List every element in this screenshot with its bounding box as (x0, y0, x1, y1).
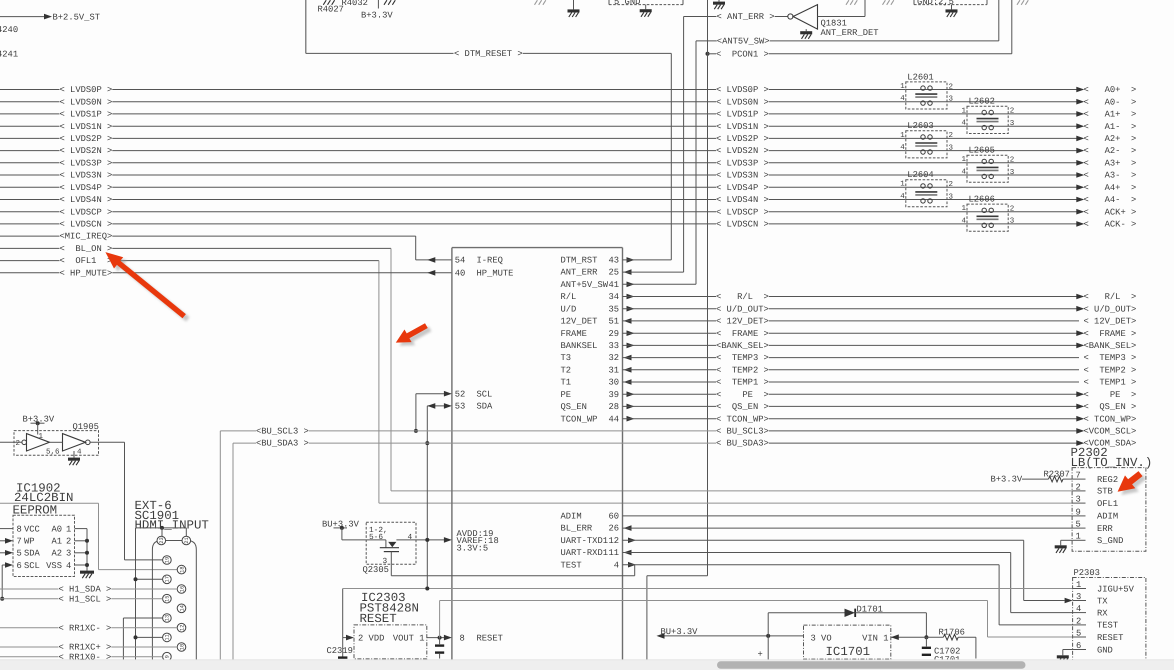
wire LVDS3N to transformer L2605 (769, 174, 967, 176)
svg-text:WP: WP (24, 537, 35, 547)
wire TEMP3 to right port (769, 357, 1079, 359)
wire pin to label TEMP3 (623, 357, 717, 359)
svg-text:< LVDS3P >: < LVDS3P > (60, 158, 113, 168)
svg-text:< BL_ON >: < BL_ON > (60, 244, 113, 254)
wire U/D_OUT to right port (769, 308, 1079, 310)
svg-text:RX: RX (1097, 608, 1108, 618)
svg-text:< PE >: < PE > (716, 390, 769, 400)
svg-text:30: 30 (608, 378, 619, 388)
inverter Q1831 (788, 14, 793, 19)
wire BL_ON to P2302 STB (112, 247, 391, 249)
wire to HDMI pin 18 (0, 502, 99, 504)
net MIC_IREQ label (0, 235, 60, 237)
transformer L2604 (900, 170, 953, 207)
wire LVDS4N to transformer L2604 (769, 199, 906, 201)
svg-text:< PE >: < PE > (1084, 390, 1137, 400)
svg-text:4: 4 (962, 217, 967, 225)
svg-text:REG2: REG2 (1097, 475, 1118, 485)
wire LVDS3P to transformer L2605 (769, 162, 967, 164)
svg-text:5-6: 5-6 (369, 533, 383, 542)
svg-text:4241: 4241 (0, 50, 18, 60)
svg-text:ANT+5V_SW: ANT+5V_SW (561, 280, 609, 290)
net label DTM_RESET with wires (306, 52, 454, 54)
svg-text:< LVDS2P >: < LVDS2P > (60, 134, 113, 144)
svg-text:R/L: R/L (561, 292, 577, 302)
svg-text:< TEMP1 >: < TEMP1 > (1084, 378, 1137, 388)
svg-text:< LVDS0N >: < LVDS0N > (716, 97, 769, 107)
svg-text:18: 18 (179, 566, 185, 572)
wire Q1905 output to HDMI pin 19 (90, 441, 124, 443)
wire LVDS4P to middle label (112, 186, 716, 188)
svg-text:< TEMP2 >: < TEMP2 > (1084, 365, 1137, 375)
transformer L2606 (962, 195, 1015, 232)
svg-text:L2601: L2601 (907, 72, 933, 82)
svg-text:< LVDSCN >: < LVDSCN > (60, 220, 113, 230)
connector P2303 box (1073, 578, 1146, 670)
svg-text:JIGU+5V: JIGU+5V (1097, 584, 1135, 594)
wire 12V_DET to right port (769, 320, 1079, 322)
svg-text:< LVDSCN >: < LVDSCN > (716, 220, 769, 230)
wire TEMP2 to right port (769, 369, 1079, 371)
capacitor C1702 (925, 637, 927, 646)
svg-text:< HP_MUTE>: < HP_MUTE> (60, 268, 113, 278)
svg-text:QS_EN: QS_EN (561, 402, 587, 412)
svg-text:ADIM: ADIM (1097, 512, 1118, 522)
svg-text:< ACK- >: < ACK- > (1084, 220, 1137, 230)
svg-text:Q2305: Q2305 (363, 565, 389, 575)
scrollbar track (0, 660, 1174, 670)
svg-text:14: 14 (179, 605, 185, 611)
wire LVDSCP to middle label (112, 211, 716, 213)
wire Q1831 output (818, 16, 866, 18)
wire A0/A1/A2/VSS to ground (75, 528, 88, 530)
svg-text:L2603: L2603 (907, 121, 933, 131)
svg-text:VSS: VSS (46, 561, 62, 571)
port A4- (1076, 197, 1084, 203)
svg-text:<ANT5V_SW>: <ANT5V_SW> (717, 37, 770, 47)
wire FRAME to right port (769, 332, 1079, 334)
svg-text:< 12V_DET>: < 12V_DET> (716, 317, 769, 327)
wire VOUT to pin 8 RESET (427, 637, 446, 639)
svg-text:< A1+ >: < A1+ > (1084, 110, 1137, 120)
svg-text:32: 32 (608, 353, 619, 363)
svg-text:1: 1 (900, 181, 905, 189)
wire LVDS4P to transformer L2604 (769, 186, 906, 188)
svg-text:4: 4 (1076, 604, 1081, 614)
wire BU+3.3V to IC1701 VO (665, 635, 804, 637)
ground at EEPROM (80, 571, 94, 574)
transformer L2601 (900, 72, 953, 109)
svg-text:TEST: TEST (1097, 621, 1118, 631)
net LVDS0N: left label (0, 101, 60, 103)
svg-text:< U/D_OUT>: < U/D_OUT> (716, 304, 769, 314)
wire L2602 output row (1008, 113, 1079, 115)
svg-text:ANT_ERR_DET: ANT_ERR_DET (821, 28, 879, 38)
svg-text:< BU_SDA3>: < BU_SDA3> (716, 439, 769, 449)
port ACK+ (1076, 209, 1084, 215)
svg-text:SDA: SDA (477, 402, 494, 412)
svg-text:60: 60 (608, 512, 619, 522)
svg-text:1: 1 (1076, 580, 1081, 590)
svg-text:43: 43 (608, 256, 619, 266)
ground at P2302 S_GND (1061, 539, 1072, 541)
connector shell pin 21 (182, 536, 191, 545)
svg-text:4: 4 (408, 533, 413, 542)
svg-text:< LVDS2N >: < LVDS2N > (60, 146, 113, 156)
svg-text:< LVDS2P >: < LVDS2P > (716, 134, 769, 144)
svg-text:< U/D_OUT>: < U/D_OUT> (1084, 304, 1137, 314)
svg-text:2 VDD: 2 VDD (358, 633, 384, 643)
svg-text:3.3V:5: 3.3V:5 (457, 544, 489, 554)
P2302 pin 7 REG2 (1072, 478, 1085, 480)
svg-text:L2606: L2606 (969, 195, 995, 205)
P2302 pin 1 S_GND (1072, 539, 1085, 541)
svg-text:< TEMP2 >: < TEMP2 > (716, 365, 769, 375)
svg-text:SCL: SCL (24, 561, 40, 571)
wires to shell pins (161, 528, 163, 536)
svg-text:1: 1 (962, 205, 967, 213)
wire LVDS1P to middle label (112, 113, 716, 115)
svg-text:19: 19 (165, 557, 171, 563)
wire WP (0, 540, 5, 542)
ground (partial) (883, 0, 886, 5)
svg-text:< LVDS1N >: < LVDS1N > (60, 122, 113, 132)
svg-text:40: 40 (455, 268, 466, 278)
svg-text:< TCON_WP>: < TCON_WP> (716, 414, 769, 424)
svg-text:11: 11 (165, 634, 171, 640)
IC IC1701 box (804, 625, 891, 659)
IC IC2303 box (354, 625, 427, 659)
port VCOM_SDA (1076, 440, 1084, 446)
svg-text:2: 2 (1076, 616, 1081, 626)
connector pin 11 (163, 633, 172, 642)
svg-text:< A4- >: < A4- > (1084, 195, 1137, 205)
svg-text:FRAME: FRAME (561, 329, 587, 339)
wire LVDSCN to middle label (112, 223, 716, 225)
svg-text:< A0+ >: < A0+ > (1084, 85, 1137, 95)
port FRAME (1076, 330, 1084, 336)
svg-text:S_GND: S_GND (1097, 536, 1123, 546)
svg-text:UART-TXD1: UART-TXD1 (561, 536, 609, 546)
svg-text:3 VO: 3 VO (811, 633, 832, 643)
wire TCON_WP to right port (769, 418, 1079, 420)
connector pin 9 (163, 652, 172, 661)
svg-text:< LVDS0P >: < LVDS0P > (716, 85, 769, 95)
connector shell (152, 541, 196, 670)
svg-text:RESET: RESET (477, 633, 503, 643)
ground (718, 0, 720, 2)
svg-text:VOUT 1: VOUT 1 (393, 633, 425, 643)
wire UART-RXD1 to P2303 RX (623, 552, 1011, 554)
net RR1XC- label and wires (0, 627, 59, 629)
svg-text:54: 54 (455, 256, 466, 266)
ground at Q1831 (805, 29, 807, 31)
wire LVDSCP to transformer L2606 (769, 211, 967, 213)
svg-text:9: 9 (1076, 507, 1081, 517)
svg-text:L2604: L2604 (907, 170, 933, 180)
port PE (1076, 391, 1084, 397)
net LVDS4P: left label (0, 186, 60, 188)
ground (573, 0, 575, 9)
wire LVDS2P to middle label (112, 137, 716, 139)
svg-text:C2319: C2319 (327, 646, 353, 656)
wire OFL1 to P2302 OFL1 (112, 260, 379, 262)
power label BU+3.3V (IC1701) (657, 633, 665, 639)
wire stub (377, 0, 379, 9)
net LVDS4N: left label (0, 199, 60, 201)
svg-text:< LVDS0N >: < LVDS0N > (60, 97, 113, 107)
wire HP_MUTE to IC pin 40 (112, 272, 452, 274)
svg-text:5,6: 5,6 (46, 448, 60, 457)
svg-text:I-REQ: I-REQ (477, 256, 503, 266)
port TCON_WP (1076, 416, 1084, 422)
wire pin25 ANT_ERR up (623, 271, 684, 273)
svg-text:DTM_RST: DTM_RST (561, 256, 598, 266)
svg-text:R1706: R1706 (939, 627, 965, 637)
svg-text:VIN 1: VIN 1 (862, 633, 888, 643)
svg-text:1: 1 (900, 83, 905, 91)
wire L2602 output row (1008, 125, 1079, 127)
net OFL1 label (0, 260, 60, 262)
svg-text:< QS_EN >: < QS_EN > (716, 402, 769, 412)
wire L2606 output row (1008, 223, 1079, 225)
capacitor at VOUT (439, 638, 441, 645)
connector pin 13 (163, 614, 172, 623)
svg-text:12: 12 (608, 536, 619, 546)
wire LVDS3P to middle label (112, 162, 716, 164)
wire BU_SCL3 to right port (769, 430, 1079, 432)
transistor Q1905 (dual buffer) (14, 422, 99, 457)
port A0- (1076, 99, 1084, 105)
port VCOM_SCL (1076, 428, 1084, 434)
svg-text:R2307: R2307 (1044, 469, 1070, 479)
wire gate from BU+3.3V (342, 539, 386, 541)
wire SDA to BU_SDA3 (427, 405, 445, 407)
wire LVDSCN to transformer L2606 (769, 223, 967, 225)
wire PE to right port (769, 393, 1079, 395)
wire pin to label 12V_DET (623, 320, 717, 322)
svg-text:< RR1XC+ >: < RR1XC+ > (59, 643, 112, 653)
svg-text:L2605: L2605 (969, 146, 995, 156)
transformer L2603 (900, 121, 953, 158)
svg-text:31: 31 (608, 365, 619, 375)
net BL_ON label (0, 247, 60, 249)
svg-text:R4027: R4027 (318, 5, 344, 15)
svg-text:3: 3 (1076, 592, 1081, 602)
wire pin to label TEMP2 (623, 369, 717, 371)
svg-text:11: 11 (608, 548, 619, 558)
svg-text:1: 1 (900, 132, 905, 140)
svg-text:4: 4 (962, 168, 967, 176)
svg-text:OFL1: OFL1 (1097, 499, 1118, 509)
port A2+ (1076, 136, 1084, 142)
net PCON1 label and wires (706, 52, 710, 56)
P2303 pin 2 TEST (1073, 624, 1086, 626)
IC main: top edge (452, 247, 623, 249)
connector pin 16 (177, 585, 186, 594)
svg-text:16: 16 (179, 586, 185, 592)
net LVDS1P: left label (0, 113, 60, 115)
svg-text:33: 33 (608, 341, 619, 351)
svg-text:T1: T1 (561, 378, 572, 388)
wire pin to label BANK_SEL (623, 344, 717, 346)
wire L2604 output row (947, 199, 1079, 201)
svg-text:1: 1 (962, 107, 967, 115)
wire LVDS2N to transformer L2603 (769, 150, 906, 152)
svg-text:VCC: VCC (24, 524, 40, 534)
svg-text:PE: PE (561, 390, 572, 400)
svg-text:HP_MUTE: HP_MUTE (477, 268, 514, 278)
svg-text:15: 15 (165, 595, 171, 601)
svg-text:1: 1 (962, 156, 967, 164)
annotation arrow 3 (points at STB) (1121, 474, 1146, 495)
wire TEMP1 to right port (769, 381, 1079, 383)
svg-text:5: 5 (17, 549, 22, 559)
svg-text:+: + (758, 649, 763, 659)
wire DTM_RESET down to pin 43 (670, 53, 672, 260)
ground (partial) (846, 0, 849, 5)
svg-text:44: 44 (608, 414, 619, 424)
svg-text:23: 23 (159, 537, 165, 543)
port A0+ (1076, 87, 1084, 93)
svg-text:P2303: P2303 (1074, 568, 1100, 578)
svg-text:5 GND: 5 GND (614, 0, 640, 7)
svg-text:<BANK_SEL>: <BANK_SEL> (1084, 341, 1137, 351)
ground (partial, faint) (535, 0, 538, 5)
wire LVDS0N to transformer L2601 (769, 101, 906, 103)
net LVDS3N: left label (0, 174, 60, 176)
net BU_SCL3 left label (219, 431, 221, 660)
svg-text:25: 25 (608, 268, 619, 278)
svg-text:< TEMP3 >: < TEMP3 > (716, 353, 769, 363)
wire pin41 ANT5V_SW up (623, 283, 697, 285)
port A3- (1076, 172, 1084, 178)
svg-text:<MIC_IREQ>: <MIC_IREQ> (60, 232, 113, 242)
wire Q1905 input (0, 441, 22, 443)
svg-text:T3: T3 (561, 353, 572, 363)
wire L2603 output row (947, 150, 1079, 152)
net ANT5V_SW label and wires (695, 41, 697, 284)
svg-text:1: 1 (66, 524, 71, 534)
IC IC1902 EEPROM box (13, 515, 75, 576)
port R/L (1076, 294, 1084, 300)
svg-text:<BU_SDA3 >: <BU_SDA3 > (256, 439, 309, 449)
transformer L2602 (962, 97, 1015, 134)
ground (partial) (1017, 0, 1020, 5)
svg-text:13: 13 (165, 615, 171, 621)
connector pin 15 (163, 594, 172, 603)
P2302 pin 5 ERR (1072, 527, 1085, 529)
svg-text:U/D: U/D (561, 304, 577, 314)
svg-text:12: 12 (179, 624, 185, 630)
wire Q2305 pin4 to IC AVDD (396, 539, 445, 541)
svg-text:< LVDS4N >: < LVDS4N > (60, 195, 113, 205)
svg-text:< A2- >: < A2- > (1084, 146, 1137, 156)
wire L2601 output row (947, 101, 1079, 103)
svg-text:< LVDS3P >: < LVDS3P > (716, 158, 769, 168)
ground under 5 GND box (645, 5, 647, 10)
net H1_SDA label and wires (0, 588, 59, 590)
svg-text:41: 41 (608, 280, 619, 290)
net RR1XC+ label and wires (0, 646, 59, 648)
svg-text:7: 7 (1076, 471, 1081, 481)
svg-text:21: 21 (184, 537, 190, 543)
svg-text:1: 1 (1076, 532, 1081, 542)
long vertical wire (PCON1 bus) (707, 0, 709, 576)
svg-text:< ANT_ERR >: < ANT_ERR > (717, 12, 775, 22)
wire L2601 output row (947, 89, 1079, 91)
transformer L2605 (962, 146, 1015, 183)
svg-text:< PCON1 >: < PCON1 > (716, 49, 769, 59)
ground under GND:2,5 box (951, 5, 953, 10)
wire ADIM to P2302 (623, 515, 1073, 517)
svg-text:ADIM: ADIM (561, 512, 582, 522)
connector shell pin 23 (157, 536, 166, 545)
power net B+2.5V_ST (0, 16, 46, 18)
svg-text:7: 7 (17, 537, 22, 547)
svg-text:34: 34 (608, 292, 619, 302)
svg-text:< LVDS1N >: < LVDS1N > (716, 122, 769, 132)
svg-text:4240: 4240 (0, 25, 18, 35)
wire LVDS0P to transformer L2601 (769, 89, 906, 91)
svg-text:< OFL1 >: < OFL1 > (60, 256, 113, 266)
svg-text:<BANK_SEL>: <BANK_SEL> (716, 341, 769, 351)
svg-text:STB: STB (1097, 487, 1113, 497)
svg-text:4: 4 (77, 449, 82, 457)
svg-text:5: 5 (1076, 520, 1081, 530)
connector pin 10 (177, 643, 186, 652)
svg-text:RESET: RESET (1097, 633, 1123, 643)
wire pin to label FRAME (623, 332, 717, 334)
svg-text:< FRAME >: < FRAME > (1084, 329, 1137, 339)
scrollbar thumb (717, 661, 1026, 668)
annotation arrow 1 (points at BL_ON) (109, 255, 190, 321)
wire L2605 output row (1008, 174, 1079, 176)
ground (R4032, partial) (384, 0, 387, 5)
wire BL_ERR to P2302 (623, 527, 1073, 529)
net LVDS1N: left label (0, 125, 60, 127)
svg-text:TEST: TEST (561, 560, 582, 570)
net HP_MUTE label (0, 272, 60, 274)
svg-text:35: 35 (608, 304, 619, 314)
wire L2603 output row (947, 137, 1079, 139)
port A4+ (1076, 185, 1084, 191)
wire D1701 to VIN (855, 612, 926, 614)
svg-text:< LVDS3N >: < LVDS3N > (60, 171, 113, 181)
port U/D_OUT (1076, 306, 1084, 312)
svg-text:T2: T2 (561, 365, 572, 375)
svg-text:10: 10 (179, 644, 185, 650)
wire R/L to right port (769, 296, 1079, 298)
wire MIC_IREQ to IC pin 54 (112, 235, 415, 237)
port A1+ (1076, 111, 1084, 117)
svg-text:4: 4 (66, 561, 71, 571)
wire LVDS3N to middle label (112, 174, 716, 176)
svg-text:6: 6 (1076, 641, 1081, 651)
svg-text:< A3- >: < A3- > (1084, 171, 1137, 181)
wire TEST branch down (634, 565, 636, 576)
svg-text:< LVDS4P >: < LVDS4P > (716, 183, 769, 193)
net LVDS2P: left label (0, 137, 60, 139)
wire LVDS1P to transformer L2602 (769, 113, 967, 115)
wire TEST to P2303 TEST (623, 564, 1000, 566)
wire L2606 output row (1008, 211, 1079, 213)
svg-text:3: 3 (66, 549, 71, 559)
wire pin to label TCON_WP (623, 418, 717, 420)
svg-text:53: 53 (455, 402, 466, 412)
wire QS_EN to right port (769, 405, 1079, 407)
svg-text:B+2.5V_ST: B+2.5V_ST (53, 13, 101, 23)
